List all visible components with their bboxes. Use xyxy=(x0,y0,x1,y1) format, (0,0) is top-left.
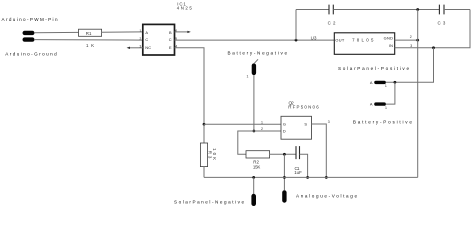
svg-text:R1: R1 xyxy=(86,31,92,36)
svg-text:1: 1 xyxy=(261,120,263,124)
wire R3 to bottom bus xyxy=(203,167,205,178)
wire analogue riser xyxy=(283,154,285,190)
resistor R2 xyxy=(246,151,270,170)
svg-text:3: 3 xyxy=(410,44,412,48)
pad J5 SolarPanel-Negative xyxy=(251,194,256,206)
wire gate row to Q2 xyxy=(204,123,281,125)
capacitor C1 xyxy=(294,146,302,175)
svg-text:1: 1 xyxy=(385,84,387,88)
wire gate node down to R3 xyxy=(203,124,205,143)
pad A2 Battery-Positive xyxy=(370,102,387,110)
svg-text:NC: NC xyxy=(145,45,151,50)
wire U3 IN xyxy=(395,47,434,49)
capacitor C2 xyxy=(328,5,336,26)
svg-text:10K: 10K xyxy=(212,148,217,160)
svg-text:A: A xyxy=(370,80,373,85)
node junction analogue xyxy=(283,153,286,156)
svg-text:2: 2 xyxy=(261,127,263,131)
wire pad A2 link xyxy=(386,82,395,104)
svg-text:GND: GND xyxy=(384,35,394,40)
node junction pad A row xyxy=(394,81,397,84)
svg-text:2: 2 xyxy=(410,35,412,39)
wire Q2 D row to R2 xyxy=(238,131,281,154)
wire bottom bus xyxy=(204,176,418,178)
node junction IN xyxy=(432,46,435,49)
pad A1 SolarPanel-Positive xyxy=(370,80,387,88)
svg-text:G: G xyxy=(283,122,286,127)
svg-text:1: 1 xyxy=(139,29,141,33)
node junction gate xyxy=(203,123,206,126)
svg-text:A: A xyxy=(145,30,148,35)
wire pad J1 to R1 xyxy=(34,31,79,33)
wire C1 right to bottom bus xyxy=(300,154,308,177)
svg-text:RFP50N06: RFP50N06 xyxy=(288,104,319,109)
voltage regulator U3 78L05 xyxy=(334,33,394,55)
resistor R1 xyxy=(79,29,102,36)
wire top bus right segment xyxy=(444,9,470,11)
wire battery-negative pad to Q2 D row xyxy=(253,75,255,131)
node junction analogue bottom xyxy=(283,176,286,179)
transistor Q2 RFP50N06 xyxy=(281,116,312,139)
svg-text:Battery-Positive: Battery-Positive xyxy=(353,119,412,124)
svg-text:C: C xyxy=(169,37,172,42)
wire R2 to C1 xyxy=(270,153,296,155)
wire U3 GND to riser xyxy=(395,39,418,41)
resistor R3 xyxy=(200,143,217,167)
node junction source bottom xyxy=(325,176,328,179)
wire C2 branch vertical xyxy=(295,10,297,41)
svg-text:B: B xyxy=(169,30,172,35)
wire Q2 source to bottom bus xyxy=(312,124,327,177)
svg-text:Battery-Negative: Battery-Negative xyxy=(228,50,288,55)
wire pin6 stub with arrow xyxy=(175,31,191,33)
svg-text:E: E xyxy=(169,45,172,50)
wire IN down to pad A row xyxy=(386,48,434,83)
pad J4 Analogue-Voltage xyxy=(282,190,286,203)
node junction top bus xyxy=(416,8,419,11)
svg-text:OUT: OUT xyxy=(335,38,344,43)
capacitor C3 xyxy=(438,5,446,26)
node junction GND riser xyxy=(416,39,419,42)
svg-text:D: D xyxy=(283,129,286,134)
pad J1 Arduino-PWM-Pin xyxy=(23,31,35,35)
svg-text:15K: 15K xyxy=(253,165,260,170)
svg-text:Arduino-PWM-Pin: Arduino-PWM-Pin xyxy=(2,17,58,22)
svg-text:IN: IN xyxy=(389,43,394,48)
svg-text:1: 1 xyxy=(385,106,387,110)
wire solar-negative stub xyxy=(253,177,255,193)
wire IC1 pin4 E to gate node xyxy=(175,48,205,125)
svg-text:1uF: 1uF xyxy=(294,170,302,175)
wire top bus left segment xyxy=(296,9,329,11)
node junction solar-negative xyxy=(252,176,255,179)
wire right riser xyxy=(417,10,419,178)
svg-text:Arduino-Ground: Arduino-Ground xyxy=(5,52,57,57)
wire NC stub with arrow xyxy=(127,47,143,49)
wire R1 to IC1 pin1 xyxy=(102,31,143,33)
svg-text:U3: U3 xyxy=(311,36,317,41)
wire IC1 pin5 to U3 OUT xyxy=(175,39,335,41)
wire top bus middle segment xyxy=(333,9,439,11)
svg-text:4N25: 4N25 xyxy=(177,6,193,11)
svg-text:3: 3 xyxy=(328,120,330,124)
wire C3 right drop xyxy=(434,10,471,48)
svg-text:1: 1 xyxy=(246,74,248,78)
op-amp U1 optocoupler IC1 4N25 xyxy=(143,24,175,55)
svg-text:A: A xyxy=(370,102,373,107)
node junction C2 branch xyxy=(295,39,298,42)
svg-text:C: C xyxy=(145,37,148,42)
wire pad J2 to IC1 pin2 xyxy=(34,39,143,42)
pad J2 Arduino-Ground xyxy=(23,37,35,41)
svg-text:S: S xyxy=(304,122,307,127)
pad J3 Battery-Negative xyxy=(246,59,258,78)
node junction C1 bottom xyxy=(306,176,309,179)
svg-text:Analogue-Voltage: Analogue-Voltage xyxy=(296,194,357,199)
node junction D row xyxy=(253,130,256,133)
svg-text:2: 2 xyxy=(139,37,141,41)
